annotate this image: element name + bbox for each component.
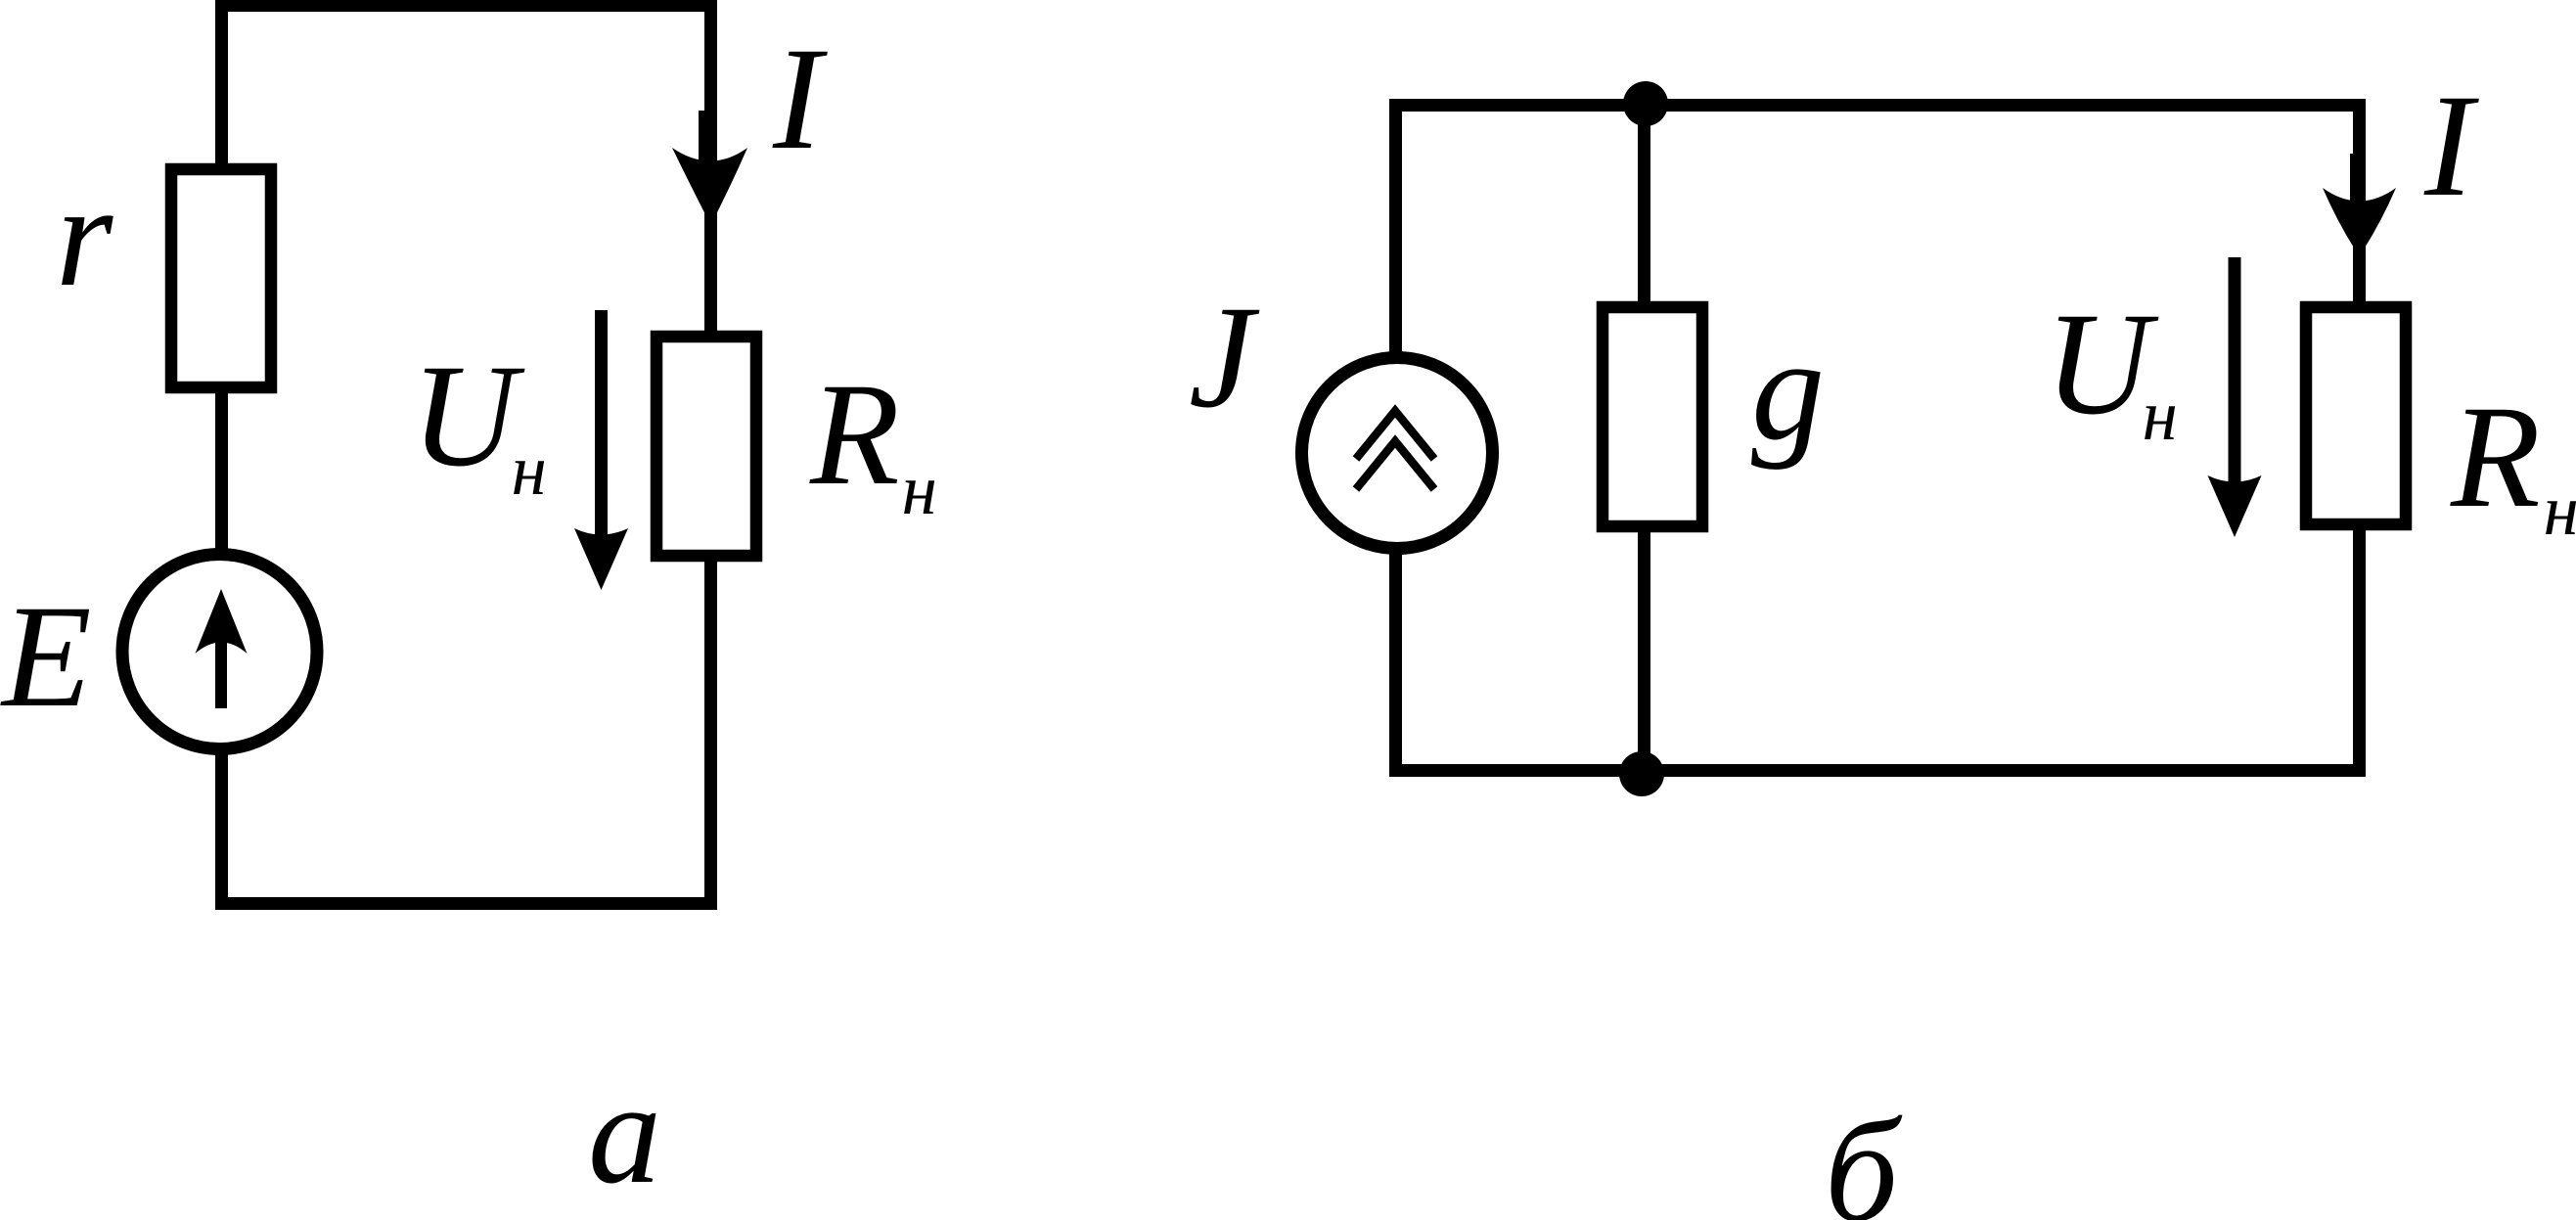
wire: middle branch lower segment (resistor g to bottom dot): [1638, 532, 1650, 775]
svg-text:E: E: [0, 575, 92, 738]
resistor g: [1603, 307, 1702, 526]
svg-text:б: б: [1825, 1090, 1903, 1220]
current source J (circle): [1302, 358, 1493, 549]
node: top junction dot: [1623, 81, 1668, 126]
wire: right wire lower segment (resistor Rн to bottom wire): [704, 562, 717, 910]
wire: right wire lower segment (resistor Rн to bottom wire): [2353, 530, 2366, 777]
current arrow I on right wire of circuit a: [699, 111, 705, 169]
svg-text:g: g: [1751, 308, 1825, 471]
wire: middle branch upper segment (top dot to resistor g): [1638, 104, 1650, 301]
svg-text:н: н: [512, 430, 547, 510]
double chevron inside source J: [1356, 411, 1434, 459]
voltage arrow Uн (circuit б, pointing down): [2229, 257, 2241, 482]
svg-text:R: R: [2450, 376, 2541, 538]
wire: right wire upper segment (top corner to resistor Rн): [704, 0, 717, 331]
node: bottom junction dot: [1619, 751, 1664, 796]
resistor R1 (r): [171, 169, 271, 387]
resistor Rн (circuit б): [2306, 307, 2406, 524]
wire: left wire lower segment (source J to bottom wire): [1389, 552, 1402, 777]
wire: bottom wire of circuit б: [1389, 764, 2366, 777]
wire: top wire of circuit a: [215, 0, 717, 12]
svg-text:J: J: [1189, 276, 1260, 438]
current arrow I on right wire of circuit б: [2350, 154, 2355, 207]
svg-text:н: н: [2544, 471, 2576, 550]
wire: top wire of circuit б: [1389, 99, 2366, 112]
wire: right wire upper segment (top corner to resistor Rн): [2353, 99, 2366, 301]
svg-text:R: R: [809, 353, 900, 516]
svg-text:U: U: [411, 335, 525, 497]
wire: left wire upper segment (top corner to source J): [1389, 99, 1402, 354]
voltage arrow Uн (circuit a, pointing down): [595, 310, 608, 535]
resistor Rн (circuit a): [656, 337, 756, 556]
wire: bottom wire of circuit a: [215, 897, 717, 910]
wire: left wire middle segment (resistor r to source E): [215, 393, 228, 550]
svg-text:I: I: [772, 18, 828, 180]
arrow inside source E (pointing up): [215, 641, 227, 708]
svg-text:н: н: [902, 450, 937, 529]
voltage source E (circle): [122, 555, 317, 749]
svg-text:a: a: [588, 1052, 661, 1214]
svg-text:н: н: [2143, 376, 2178, 455]
wire: left wire upper segment (top corner to resistor r): [215, 0, 228, 163]
svg-text:r: r: [56, 155, 113, 317]
wire: left wire lower segment (source E to bottom wire): [215, 753, 228, 910]
svg-text:I: I: [2423, 65, 2479, 227]
